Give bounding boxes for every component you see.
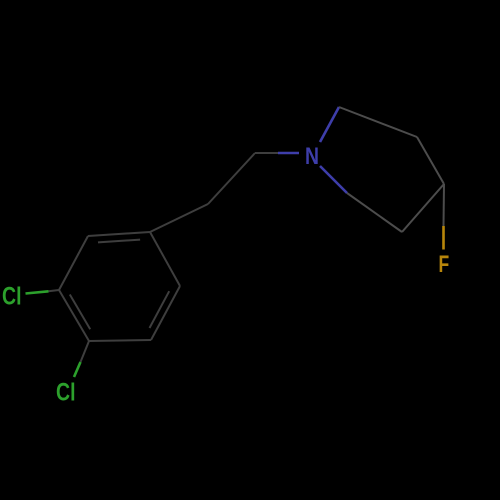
benzene ring edge L3-L4 xyxy=(150,232,180,286)
benzene ring edge L6-L1 xyxy=(59,290,89,341)
bond C(L1)-Cl1 gray half xyxy=(49,290,60,291)
bond N-Vup blue xyxy=(320,107,339,142)
svg-text:F: F xyxy=(439,251,450,278)
svg-text:Cl: Cl xyxy=(56,379,76,407)
ring bond Y-Vdn xyxy=(347,193,402,232)
ring bond Vup-W xyxy=(339,107,417,137)
bond C(L1)-Cl1 green half xyxy=(26,291,49,293)
svg-text:Cl: Cl xyxy=(2,283,22,311)
bond C(L6)-Cl2 gray half xyxy=(81,341,90,362)
bond C(L6)-Cl2 green half xyxy=(74,362,81,377)
chain bond L3-A xyxy=(150,204,208,232)
ring bond W-X xyxy=(417,137,444,184)
bond X-F gold half xyxy=(442,226,445,250)
bond B-N gray half xyxy=(255,152,278,154)
svg-text:N: N xyxy=(305,143,319,170)
benzene ring edge L2-L3 xyxy=(88,232,150,236)
bond B-N blue half xyxy=(278,152,299,155)
benzene ring edge L1-L2 xyxy=(59,236,88,290)
ring bond X-Y xyxy=(402,184,444,232)
benzene ring edge L4-L5 xyxy=(151,286,180,340)
bond X-F gray half xyxy=(443,184,446,226)
chain bond A-B xyxy=(208,153,255,204)
bond N-Vdn blue xyxy=(320,166,347,193)
benzene ring double bond inner line L2-L3 xyxy=(98,240,140,243)
benzene ring edge L5-L6 xyxy=(89,340,151,341)
benzene ring double bond inner line L4-L5 xyxy=(150,291,170,328)
benzene ring double bond inner line L6-L1 xyxy=(70,295,90,330)
